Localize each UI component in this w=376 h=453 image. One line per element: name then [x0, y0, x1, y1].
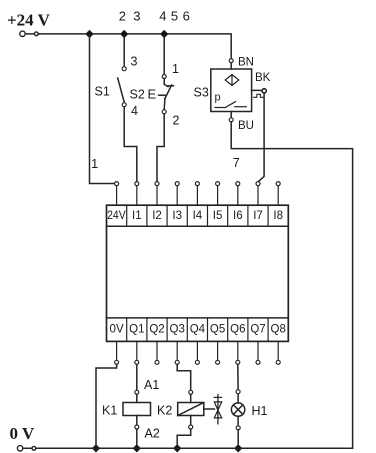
output terminal Q6	[236, 341, 240, 364]
svg-text:K1: K1	[102, 404, 117, 418]
svg-text:Q5: Q5	[210, 324, 225, 336]
svg-text:S1: S1	[95, 85, 110, 99]
output terminal Q1	[135, 341, 139, 364]
valve actuator link	[204, 408, 215, 410]
input terminal I8	[276, 182, 280, 206]
svg-text:S3: S3	[194, 86, 209, 100]
junction H1 column	[235, 445, 242, 452]
node junction S1 branch	[121, 31, 128, 38]
svg-text:2: 2	[119, 9, 126, 24]
wire S1 to I1	[124, 107, 137, 182]
svg-text:0V: 0V	[110, 324, 124, 336]
output cell labels	[110, 324, 286, 336]
svg-text:I6: I6	[233, 210, 243, 222]
input terminal I1	[135, 182, 139, 206]
switch S2 (E-stop NC)	[130, 37, 180, 128]
output terminal 0V	[115, 341, 119, 364]
PLC input row divider	[107, 225, 289, 227]
svg-text:Q1: Q1	[129, 324, 144, 336]
svg-text:24V: 24V	[107, 210, 126, 222]
output terminal Q4	[195, 341, 199, 364]
PLC output row divider	[107, 317, 289, 319]
svg-text:I4: I4	[193, 210, 203, 222]
svg-text:A2: A2	[145, 426, 160, 440]
svg-text:Q2: Q2	[149, 324, 164, 336]
output cell dividers	[127, 318, 268, 342]
input terminal 24V	[115, 182, 119, 206]
svg-text:I5: I5	[213, 210, 223, 222]
svg-text:4: 4	[131, 104, 138, 118]
relay K1	[102, 364, 160, 448]
svg-text:A1: A1	[144, 378, 159, 392]
junction K2 column	[174, 445, 181, 452]
svg-text:+24 V: +24 V	[7, 11, 51, 30]
svg-text:Q6: Q6	[230, 324, 245, 336]
svg-text:7: 7	[233, 156, 240, 170]
input terminal I6	[236, 182, 240, 206]
+24V bus wire	[38, 34, 231, 59]
svg-text:3: 3	[131, 54, 138, 68]
svg-text:0 V: 0 V	[10, 424, 35, 443]
wire 1 bus to 24V terminal	[90, 34, 114, 184]
svg-text:I7: I7	[253, 210, 263, 222]
svg-text:Q7: Q7	[250, 324, 265, 336]
svg-text:1: 1	[172, 62, 179, 76]
junction 0V column	[93, 445, 100, 452]
wire BU to 0V rail via right side	[231, 122, 352, 448]
wire S2 to I2	[157, 114, 164, 182]
BK contact hook	[254, 94, 264, 97]
input cell labels	[107, 210, 283, 222]
solenoid K2	[157, 364, 204, 448]
PLC module body	[107, 205, 289, 341]
svg-text:S2: S2	[130, 88, 145, 102]
switch S1	[95, 37, 139, 118]
output terminal Q7	[256, 341, 260, 364]
+24V terminal	[22, 33, 39, 35]
svg-text:BN: BN	[238, 57, 254, 69]
svg-text:5: 5	[171, 9, 178, 24]
node junction S2 branch	[161, 31, 168, 38]
svg-text:I2: I2	[152, 210, 162, 222]
wire BK output	[252, 89, 262, 91]
input cell dividers	[127, 205, 268, 226]
svg-text:BK: BK	[255, 72, 271, 84]
output terminal Q3	[175, 341, 179, 364]
output terminal Q8	[276, 341, 280, 364]
svg-text:2: 2	[173, 114, 180, 128]
wire 0V terminal to rail	[96, 364, 117, 448]
svg-text:Q4: Q4	[190, 324, 206, 336]
node junction wire1	[86, 31, 93, 38]
svg-text:p: p	[215, 92, 221, 104]
svg-text:Q8: Q8	[271, 324, 286, 336]
output terminal Q5	[216, 341, 220, 364]
junction K1 column	[133, 445, 140, 452]
output terminal Q2	[155, 341, 159, 364]
svg-text:3: 3	[133, 9, 140, 24]
svg-text:I3: I3	[172, 210, 182, 222]
input terminal I5	[216, 182, 220, 206]
svg-text:E: E	[148, 87, 157, 102]
input terminal I4	[195, 182, 199, 206]
svg-text:BU: BU	[238, 120, 254, 132]
svg-text:4: 4	[159, 9, 166, 24]
svg-text:Q3: Q3	[170, 324, 185, 336]
svg-text:6: 6	[183, 9, 190, 24]
0V terminal	[20, 447, 36, 449]
input terminal I7	[256, 182, 260, 206]
svg-text:H1: H1	[252, 404, 268, 418]
valve	[214, 395, 222, 424]
input terminal I3	[175, 182, 179, 206]
svg-text:I8: I8	[273, 210, 283, 222]
wire BK to input I7	[258, 93, 264, 182]
0V rail	[36, 447, 353, 449]
svg-text:K2: K2	[157, 404, 172, 418]
input terminal I2	[155, 182, 159, 206]
svg-text:I1: I1	[132, 210, 142, 222]
sensor S3	[194, 57, 271, 132]
svg-text:1: 1	[91, 156, 98, 171]
lamp H1	[231, 364, 267, 448]
